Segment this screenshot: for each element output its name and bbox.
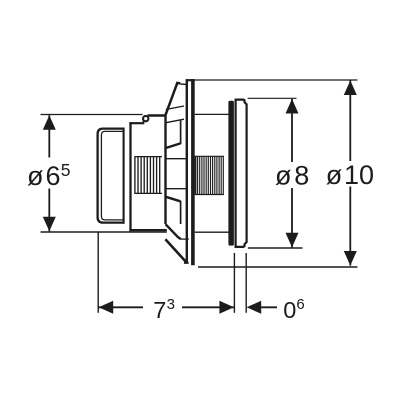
cover plate front face (246, 104, 248, 243)
cover plate bottom cap (235, 242, 247, 247)
dim 8 bottom extension line (248, 247, 303, 249)
button face outer outline (98, 129, 124, 223)
o-ring circle (143, 116, 148, 121)
svg-text:6: 6 (296, 296, 304, 313)
button face inner line (101, 131, 123, 220)
right thread top edge (195, 155, 224, 157)
svg-text:ø: ø (27, 161, 44, 191)
lip top edge (148, 114, 167, 116)
dim 73 line right (182, 306, 234, 308)
upper mid rib slant (166, 143, 181, 148)
cone bottom slant (165, 239, 187, 263)
dim 8 arrow up (286, 99, 299, 114)
svg-text:8: 8 (294, 160, 309, 190)
dim 8 line upper (291, 99, 293, 162)
nut step vertical (142, 119, 144, 124)
dim 06 arrow left (247, 301, 262, 314)
cone top thin edge to disc (180, 83, 186, 85)
svg-text:ø: ø (326, 160, 343, 190)
dim 8 top extension line (248, 97, 297, 99)
dim 65 top extension line (41, 114, 143, 116)
dim 8 line lower (291, 188, 293, 247)
right thread lines (198, 156, 224, 194)
dim 65 line upper (48, 115, 50, 157)
dim 10 line upper (349, 80, 351, 161)
dim 73 arrow left (99, 301, 114, 314)
dim 65 line lower (48, 189, 50, 232)
upper mid rib vertical (180, 121, 182, 145)
svg-text:10: 10 (344, 160, 374, 190)
cone bottom rib slant (166, 224, 181, 239)
svg-text:6: 6 (46, 161, 61, 191)
dim 73 arrow right (219, 301, 234, 314)
nut top edge (129, 122, 144, 124)
cone front rim (164, 114, 166, 224)
dim 10 top extension line (195, 79, 358, 81)
cone bottom rib thin edge to disc (181, 238, 189, 240)
lower mid rib slant (166, 197, 181, 202)
rib line B (166, 119, 184, 123)
svg-text:0: 0 (283, 297, 296, 323)
cover plate back edge (235, 99, 237, 248)
left thread top edge (134, 156, 162, 158)
svg-text:3: 3 (167, 296, 175, 313)
dim 65 arrow down (43, 217, 56, 232)
tube top line (195, 113, 229, 115)
hub top line (166, 158, 186, 160)
cover plate top cap (235, 100, 247, 105)
dim 06 right extension line (245, 253, 247, 313)
svg-text:ø: ø (275, 160, 292, 190)
right thread rod end face (195, 156, 197, 195)
tube bottom line (195, 231, 229, 233)
disc right edge (191, 79, 195, 265)
rib line A (166, 106, 184, 110)
left thread bottom edge (134, 192, 162, 194)
dim 8 arrow down (286, 233, 299, 248)
hub bottom line (166, 188, 186, 190)
dim 73 left extension line (97, 232, 99, 313)
dim 10 arrow down (344, 251, 357, 266)
button right edge (123, 128, 125, 224)
svg-text:5: 5 (61, 160, 71, 180)
disc left edge (186, 79, 188, 263)
dim 06 tail (260, 306, 277, 308)
disc top cap (186, 79, 195, 81)
dim 65 bottom extension line (41, 231, 167, 233)
svg-text:7: 7 (153, 297, 166, 323)
dim 10 bottom extension line (198, 266, 358, 268)
dim 65 arrow up (43, 115, 56, 130)
nut left edge (129, 122, 131, 231)
right thread bottom edge (195, 194, 224, 196)
dim 73 right extension line (233, 253, 235, 313)
dim 73 line left (99, 306, 143, 308)
lower mid rib vertical (180, 201, 182, 224)
gasket (228, 101, 234, 246)
left thread lines (135, 157, 160, 194)
cone top slant (165, 83, 180, 116)
nut bottom edge (129, 229, 166, 231)
dim 10 line lower (349, 187, 351, 266)
disc bottom foot (184, 262, 189, 264)
dim 10 arrow up (344, 80, 357, 95)
